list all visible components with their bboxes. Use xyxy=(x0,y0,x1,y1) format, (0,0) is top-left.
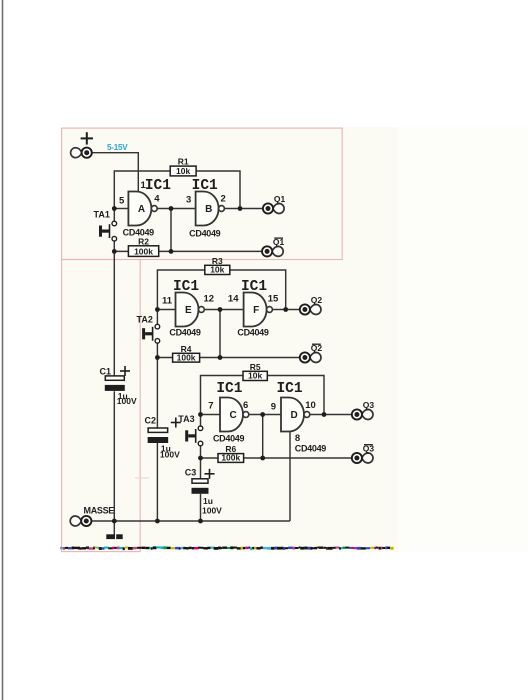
wire: ground bus xyxy=(91,520,290,522)
svg-text:Q3: Q3 xyxy=(363,400,375,410)
wire: IC1E input pin11 xyxy=(157,309,175,311)
gate IC1C (C) body xyxy=(220,398,249,432)
svg-text:10: 10 xyxy=(305,400,316,411)
wire: IC1B out to Q1 xyxy=(224,208,263,210)
svg-text:R3: R3 xyxy=(212,256,223,266)
wire: R4 line to Q2bar xyxy=(157,357,299,359)
svg-text:E: E xyxy=(185,305,192,316)
wire: R3 net xyxy=(157,270,285,310)
terminal Q3 xyxy=(352,400,375,420)
pushbutton TA3 xyxy=(185,426,203,446)
terminal Q1 xyxy=(263,194,286,213)
stage 1 highlight box xyxy=(62,128,343,259)
wire: IC1D pin8 to ground xyxy=(289,432,291,522)
terminal MASSE (ground) xyxy=(70,516,91,526)
svg-text:CD4049: CD4049 xyxy=(189,229,221,239)
svg-text:100V: 100V xyxy=(202,506,222,516)
gate IC1D (D) body xyxy=(281,398,310,432)
wire: TA2 vertical rail xyxy=(156,310,158,522)
gate IC1B (B) body xyxy=(196,192,225,226)
wire: R2 line to Q1bar xyxy=(114,250,262,252)
svg-text:11: 11 xyxy=(162,296,173,307)
wire: node A-out down to R2 xyxy=(170,209,172,252)
wire: R5 net xyxy=(201,376,325,415)
svg-text:CD4049: CD4049 xyxy=(295,444,327,454)
svg-text:R5: R5 xyxy=(250,362,261,372)
svg-text:4: 4 xyxy=(154,194,160,205)
svg-text:TA2: TA2 xyxy=(137,315,153,325)
gate IC1A (A) body xyxy=(128,192,157,226)
svg-text:10k: 10k xyxy=(176,166,190,176)
junction dots xyxy=(112,206,117,211)
wire: R6 line to Q3bar xyxy=(201,457,352,459)
page scan edge line xyxy=(2,0,4,700)
svg-text:100V: 100V xyxy=(117,396,137,406)
svg-text:2: 2 xyxy=(221,194,226,205)
svg-text:1: 1 xyxy=(141,180,147,191)
svg-text:CD4049: CD4049 xyxy=(169,328,201,338)
label + (supply) xyxy=(81,132,93,144)
svg-text:12: 12 xyxy=(204,294,215,305)
wire: TA1 vertical rail xyxy=(113,209,115,535)
ground symbol xyxy=(106,534,122,539)
svg-text:F: F xyxy=(253,305,259,316)
wire: IC1A out to IC1B in xyxy=(157,208,195,210)
svg-text:C1: C1 xyxy=(100,367,112,377)
wire: IC1C input pin7 xyxy=(201,414,221,416)
svg-text:R1: R1 xyxy=(178,157,189,167)
svg-text:D: D xyxy=(291,410,298,421)
svg-text:CD4049: CD4049 xyxy=(213,434,245,444)
svg-text:8: 8 xyxy=(295,433,300,444)
wire: IC1F out to Q2 xyxy=(272,309,299,311)
svg-text:C2: C2 xyxy=(145,416,157,426)
wire: IC1E out to IC1F in xyxy=(204,309,243,311)
resistor R2 100k box xyxy=(128,246,158,257)
svg-text:CD4049: CD4049 xyxy=(237,328,269,338)
svg-text:TA1: TA1 xyxy=(94,210,110,220)
wire: TA3 vertical rail xyxy=(200,415,202,522)
svg-text:1u: 1u xyxy=(203,496,213,506)
wire: supply terminal to IC1A pin1 xyxy=(92,153,138,192)
svg-text:10k: 10k xyxy=(248,371,262,381)
svg-text:R6: R6 xyxy=(225,444,236,454)
stage left highlight box xyxy=(62,260,141,552)
svg-text:R2: R2 xyxy=(138,236,149,246)
terminal Q2bar xyxy=(300,343,323,363)
svg-text:IC1: IC1 xyxy=(192,178,218,194)
wire: IC1C out to IC1D in xyxy=(249,414,281,416)
wire: node C-out down to R6 xyxy=(262,415,264,459)
svg-text:10k: 10k xyxy=(210,265,224,275)
svg-text:5-15V: 5-15V xyxy=(107,143,128,152)
resistor R6 100k box xyxy=(218,453,244,463)
svg-text:5: 5 xyxy=(119,196,125,207)
svg-text:R4: R4 xyxy=(181,344,192,354)
svg-text:IC1: IC1 xyxy=(173,279,199,295)
terminal Q3bar xyxy=(352,444,375,464)
svg-text:IC1: IC1 xyxy=(216,381,242,397)
resistor R1 10k box xyxy=(170,166,196,176)
svg-text:Q2: Q2 xyxy=(311,295,323,305)
svg-text:MASSE: MASSE xyxy=(84,506,115,516)
svg-text:15: 15 xyxy=(268,294,279,305)
svg-text:Q1: Q1 xyxy=(274,194,286,204)
gate IC1E (E) body xyxy=(176,293,205,327)
resistor R5 10k box xyxy=(243,371,267,381)
svg-text:IC1: IC1 xyxy=(241,279,267,295)
wire: node E-out down to R4 xyxy=(219,310,221,358)
resistor R4 100k box xyxy=(173,352,200,362)
gate IC1F (F) body xyxy=(244,293,273,327)
pushbutton TA1 xyxy=(99,221,117,241)
svg-text:3: 3 xyxy=(186,195,191,206)
svg-text:B: B xyxy=(205,204,212,215)
capacitor C3 1u 100V xyxy=(185,468,222,516)
svg-text:100k: 100k xyxy=(134,247,153,257)
svg-text:14: 14 xyxy=(228,294,239,305)
svg-text:C3: C3 xyxy=(185,468,197,478)
resistor R3 10k box xyxy=(205,265,230,275)
wire: R1 to IC1B output xyxy=(196,171,240,209)
capacitor C1 1u 100V xyxy=(100,366,137,406)
svg-text:IC1: IC1 xyxy=(276,381,302,397)
scan noise line xyxy=(60,546,394,550)
wire: IC1A input pin5 xyxy=(114,208,128,210)
wire: IC1D out to Q3 xyxy=(310,414,352,416)
terminal supply + xyxy=(71,148,92,158)
svg-text:6: 6 xyxy=(243,400,248,411)
svg-text:9: 9 xyxy=(271,402,276,413)
terminal Q1bar xyxy=(262,237,285,257)
svg-text:100V: 100V xyxy=(160,450,180,460)
wire: R1 feedback net left xyxy=(114,171,170,209)
capacitor C2 1u 100V xyxy=(145,416,181,460)
svg-text:IC1: IC1 xyxy=(145,178,171,194)
svg-text:A: A xyxy=(138,204,145,215)
svg-text:7: 7 xyxy=(208,401,213,412)
svg-text:C: C xyxy=(230,410,237,421)
small pink tick xyxy=(135,477,149,479)
terminal Q2 xyxy=(300,295,323,315)
pushbutton TA2 xyxy=(142,324,160,343)
